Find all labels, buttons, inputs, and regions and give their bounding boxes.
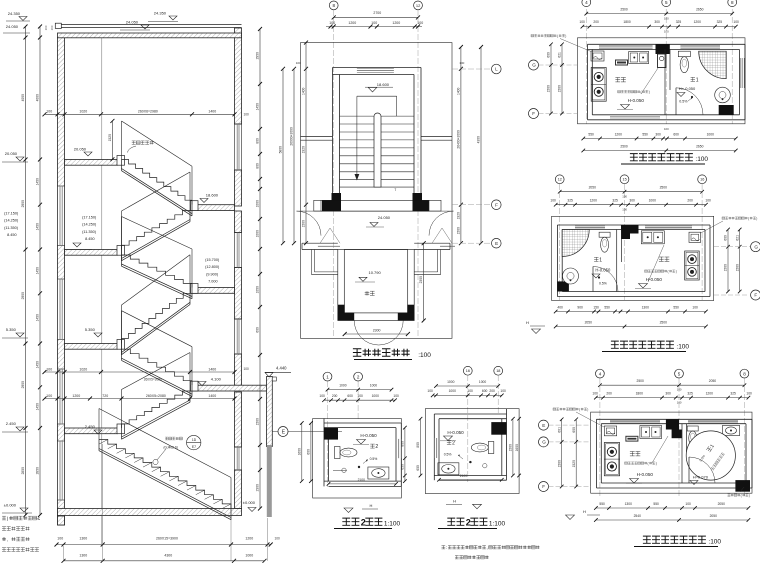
svg-text:H=0.070: H=0.070: [693, 475, 709, 480]
svg-text:2650: 2650: [696, 8, 704, 12]
stair treads: [340, 115, 415, 117]
svg-text:100: 100: [664, 17, 669, 21]
svg-text:H-0.050: H-0.050: [360, 433, 377, 438]
svg-text:600: 600: [482, 389, 488, 393]
svg-text:1200: 1200: [590, 198, 598, 202]
svg-text:100: 100: [275, 537, 281, 541]
svg-text:1300: 1300: [625, 502, 633, 506]
balcony doors: [297, 211, 322, 236]
svg-text:): ): [656, 462, 657, 466]
E axis circle: [278, 427, 288, 437]
svg-text:1000: 1000: [479, 380, 487, 384]
svg-text:4300: 4300: [164, 554, 172, 558]
svg-text:1000: 1000: [707, 132, 715, 136]
svg-text:900: 900: [577, 305, 583, 309]
svg-text:1500: 1500: [302, 220, 306, 228]
svg-text:800: 800: [401, 441, 405, 447]
svg-text:2900: 2900: [21, 381, 25, 389]
svg-text:1500: 1500: [735, 264, 739, 272]
svg-text:100: 100: [371, 21, 377, 25]
section right wall: [235, 28, 242, 124]
svg-text:): ): [756, 217, 757, 221]
svg-text:2100: 2100: [460, 474, 468, 478]
svg-text:2500: 2500: [660, 320, 668, 324]
svg-text:8: 8: [731, 0, 734, 5]
svg-text:2050: 2050: [589, 186, 597, 190]
svg-text:0.5%: 0.5%: [679, 100, 688, 104]
svg-text::100: :100: [418, 352, 431, 359]
svg-text:400: 400: [557, 305, 563, 309]
svg-text:550: 550: [599, 502, 605, 506]
interior extension line: [101, 38, 103, 544]
svg-text:1450: 1450: [36, 403, 40, 411]
svg-text:2: 2: [357, 374, 360, 379]
svg-text:8.450: 8.450: [7, 233, 17, 237]
svg-text:550: 550: [604, 305, 610, 309]
svg-text:600: 600: [547, 52, 551, 58]
svg-text:100: 100: [393, 394, 399, 398]
svg-text:1200: 1200: [348, 21, 356, 25]
svg-text:600: 600: [347, 394, 353, 398]
svg-text:1:100: 1:100: [489, 521, 506, 528]
right landing slabs: [191, 205, 235, 211]
svg-text:200: 200: [687, 198, 693, 202]
svg-text:2850: 2850: [21, 467, 25, 475]
svg-text:20.050: 20.050: [74, 147, 87, 152]
svg-text:H-0.050: H-0.050: [447, 430, 464, 435]
svg-text:4000: 4000: [36, 94, 40, 102]
svg-text:16: 16: [700, 178, 704, 182]
svg-text:300: 300: [665, 391, 671, 395]
svg-text:100: 100: [677, 388, 682, 392]
svg-text:2300: 2300: [373, 329, 381, 333]
svg-text:H-0.050: H-0.050: [628, 98, 645, 103]
svg-text:1500: 1500: [558, 85, 562, 93]
svg-text:F: F: [532, 111, 535, 116]
svg-text:100: 100: [550, 198, 556, 202]
svg-text:1450: 1450: [256, 103, 260, 111]
stair flights: [122, 160, 193, 205]
svg-text:F: F: [495, 202, 498, 207]
svg-text:2050: 2050: [709, 379, 717, 383]
svg-text::: :: [446, 545, 447, 550]
svg-text:G: G: [532, 63, 536, 68]
svg-text:(14.250): (14.250): [82, 223, 97, 227]
svg-text:H=-0.050: H=-0.050: [679, 86, 696, 91]
svg-text:±0.000: ±0.000: [243, 500, 256, 505]
svg-text:100: 100: [592, 391, 598, 395]
svg-text:24.050: 24.050: [378, 215, 391, 220]
svg-text:G: G: [542, 440, 546, 445]
svg-text:325: 325: [676, 20, 682, 24]
svg-text:4.440: 4.440: [276, 366, 287, 371]
svg-text:200: 200: [593, 20, 599, 24]
svg-text:1000: 1000: [372, 394, 380, 398]
svg-text:1000: 1000: [339, 383, 347, 387]
svg-text:(14.250): (14.250): [4, 219, 19, 223]
detail ref circle: [187, 435, 201, 449]
svg-text:601: 601: [557, 427, 561, 433]
svg-text:621: 621: [558, 52, 562, 58]
svg-text:2950: 2950: [256, 52, 260, 60]
svg-text:1000: 1000: [256, 230, 260, 238]
svg-text:12: 12: [558, 178, 562, 182]
svg-text:2100: 2100: [358, 478, 366, 482]
svg-text:,: ,: [487, 545, 488, 550]
svg-text:100: 100: [579, 20, 585, 24]
svg-text:100: 100: [664, 127, 669, 131]
svg-text:26000+3000: 26000+3000: [290, 127, 294, 146]
svg-text:4000: 4000: [21, 94, 25, 102]
svg-text:1300: 1300: [642, 305, 650, 309]
svg-text:24.350: 24.350: [154, 11, 167, 16]
svg-text:H: H: [453, 499, 456, 504]
svg-text:4300: 4300: [477, 136, 481, 144]
svg-text:24.350: 24.350: [8, 11, 21, 16]
svg-text:2050: 2050: [585, 320, 593, 324]
svg-text:720: 720: [102, 394, 108, 398]
svg-text:2650: 2650: [696, 144, 704, 148]
svg-text:2540: 2540: [634, 514, 642, 518]
svg-text:100: 100: [622, 195, 627, 199]
svg-text:1500: 1500: [724, 264, 728, 272]
svg-text:1020: 1020: [79, 110, 87, 114]
svg-text:1020: 1020: [79, 367, 87, 371]
svg-text:18.600: 18.600: [377, 82, 390, 87]
svg-text:150: 150: [593, 305, 599, 309]
svg-text:24.050: 24.050: [6, 24, 19, 29]
svg-text:1200: 1200: [72, 394, 80, 398]
svg-text:2700: 2700: [373, 11, 381, 15]
ground slab: [58, 509, 242, 516]
svg-text:100: 100: [622, 208, 627, 212]
svg-text:4: 4: [599, 371, 602, 376]
svg-text:1300: 1300: [79, 554, 87, 558]
svg-text:325: 325: [687, 391, 693, 395]
svg-text:(17.150): (17.150): [4, 212, 19, 216]
svg-text:550: 550: [642, 132, 648, 136]
svg-text:24.050: 24.050: [126, 20, 139, 25]
svg-text:1600: 1600: [298, 448, 302, 456]
svg-text::100: :100: [676, 344, 689, 351]
svg-text:100: 100: [329, 21, 335, 25]
svg-text:18: 18: [496, 369, 500, 373]
svg-text:800: 800: [416, 442, 420, 448]
svg-text:1000: 1000: [649, 198, 657, 202]
svg-text:650: 650: [416, 465, 420, 471]
svg-text:600: 600: [572, 427, 576, 433]
svg-text:H: H: [370, 503, 373, 508]
right dim column: [259, 29, 261, 509]
svg-text:1520: 1520: [108, 134, 112, 142]
svg-text:1400: 1400: [456, 87, 460, 95]
svg-text:20.050: 20.050: [5, 151, 18, 156]
svg-text:2500: 2500: [637, 379, 645, 383]
svg-text:1520: 1520: [572, 460, 576, 468]
svg-text:2300: 2300: [256, 484, 260, 492]
svg-text:550: 550: [588, 132, 594, 136]
svg-text:2500: 2500: [620, 8, 628, 12]
svg-text:±0.000: ±0.000: [4, 503, 17, 508]
svg-text:(9.900): (9.900): [206, 272, 219, 276]
svg-text:325: 325: [567, 198, 573, 202]
svg-text:0.5%: 0.5%: [599, 282, 607, 286]
svg-text:1800: 1800: [636, 391, 644, 395]
svg-text:2.450: 2.450: [85, 424, 96, 429]
svg-text:1D: 1D: [192, 438, 197, 442]
svg-text:100: 100: [46, 367, 52, 371]
svg-text:(11.350): (11.350): [82, 230, 97, 234]
svg-text:200: 200: [606, 391, 612, 395]
svg-text:1500: 1500: [256, 418, 260, 426]
svg-text:1000: 1000: [449, 389, 457, 393]
svg-text:2: 2: [466, 518, 471, 528]
svg-text:800: 800: [256, 163, 260, 169]
svg-text:100: 100: [296, 61, 301, 65]
svg-text:10.790: 10.790: [369, 270, 382, 275]
svg-text:1450: 1450: [36, 314, 40, 322]
svg-text:E: E: [542, 423, 545, 428]
svg-text:260X15=3900: 260X15=3900: [156, 537, 178, 541]
svg-text:1400: 1400: [208, 394, 216, 398]
svg-text:2: 2: [375, 444, 378, 450]
detail M1 bath2: [298, 372, 407, 528]
detail R1 kitchen/bath: [529, 0, 746, 164]
svg-text:100: 100: [685, 502, 691, 506]
svg-text:2: 2: [452, 441, 455, 447]
svg-text:G: G: [754, 244, 758, 249]
svg-text:1400: 1400: [208, 367, 216, 371]
svg-text::100: :100: [708, 539, 721, 546]
svg-text:300: 300: [654, 20, 660, 24]
svg-text:4.100: 4.100: [211, 376, 222, 381]
svg-text:1000: 1000: [370, 383, 378, 387]
svg-text:300: 300: [629, 198, 635, 202]
svg-text:621: 621: [735, 235, 739, 241]
svg-text:2900: 2900: [21, 200, 25, 208]
svg-text:1200: 1200: [706, 391, 714, 395]
svg-text:1200: 1200: [392, 21, 400, 25]
svg-text:100: 100: [357, 394, 363, 398]
svg-text:1920: 1920: [456, 212, 460, 220]
svg-text:650: 650: [401, 464, 405, 470]
svg-text:16: 16: [466, 369, 470, 373]
stair core: [333, 67, 422, 69]
bottom-left note: [2, 516, 6, 520]
svg-text:550: 550: [673, 305, 679, 309]
dim rows mid: [45, 371, 235, 373]
svg-text:5.350: 5.350: [6, 327, 17, 332]
roof plan title: [353, 349, 361, 357]
svg-text:1800: 1800: [623, 20, 631, 24]
svg-text:1500: 1500: [557, 460, 561, 468]
svg-text:100: 100: [57, 537, 63, 541]
svg-text:600: 600: [256, 327, 260, 333]
svg-text:1500: 1500: [456, 227, 460, 235]
svg-text:2050: 2050: [710, 514, 718, 518]
svg-text:600: 600: [673, 132, 679, 136]
svg-text:200: 200: [332, 394, 338, 398]
svg-text:H-0.050: H-0.050: [637, 472, 654, 477]
svg-text:15: 15: [623, 178, 627, 182]
svg-text:H: H: [526, 320, 529, 325]
svg-text:1450: 1450: [36, 267, 40, 275]
svg-text:): ): [565, 34, 566, 38]
svg-text:1000: 1000: [256, 200, 260, 208]
svg-text:): ): [676, 270, 677, 274]
left dim columns: [25, 27, 27, 516]
svg-text:1050: 1050: [256, 286, 260, 294]
svg-text:2500: 2500: [660, 186, 668, 190]
svg-text:F: F: [542, 484, 545, 489]
svg-text:5800: 5800: [279, 146, 283, 154]
svg-text:(15.700): (15.700): [205, 258, 220, 262]
svg-text:100: 100: [459, 61, 464, 65]
svg-text:800: 800: [256, 138, 260, 144]
svg-text:5: 5: [678, 371, 681, 376]
detail R3 kitchen/bath: [539, 369, 753, 546]
svg-text:325: 325: [612, 198, 618, 202]
svg-text:2300: 2300: [419, 276, 423, 284]
svg-text:100: 100: [319, 394, 325, 398]
svg-text:F: F: [754, 293, 757, 298]
section left wall: [58, 38, 65, 526]
svg-text:260X5=2080: 260X5=2080: [144, 378, 162, 382]
svg-text:26400+3000: 26400+3000: [456, 130, 460, 149]
svg-text:12: 12: [416, 3, 421, 8]
svg-text:1: 1: [326, 374, 329, 379]
svg-text:1300: 1300: [79, 537, 87, 541]
svg-text:1: 1: [696, 78, 699, 84]
svg-text:(17.150): (17.150): [82, 216, 97, 220]
roof slab: [56, 24, 242, 26]
svg-text:1600: 1600: [515, 444, 519, 452]
svg-text:100: 100: [677, 401, 682, 405]
svg-text:): ): [649, 90, 650, 94]
svg-text:100: 100: [427, 389, 433, 393]
svg-text:600: 600: [307, 449, 311, 455]
svg-text:H: H: [583, 509, 586, 514]
svg-text:1200: 1200: [615, 132, 623, 136]
svg-text:2900: 2900: [21, 292, 25, 300]
svg-text:600: 600: [724, 235, 728, 241]
svg-text:300: 300: [655, 132, 661, 136]
svg-text:E7: E7: [192, 445, 196, 449]
svg-text:100: 100: [46, 394, 52, 398]
svg-text:2050: 2050: [718, 502, 726, 506]
svg-text:18.600: 18.600: [206, 193, 219, 198]
roof plan: [279, 1, 502, 360]
svg-text:1450: 1450: [36, 361, 40, 369]
svg-text:7.000: 7.000: [208, 280, 218, 284]
svg-text:100: 100: [705, 198, 711, 202]
svg-text:100: 100: [467, 389, 473, 393]
svg-text:1450: 1450: [36, 178, 40, 186]
svg-text:,: ,: [7, 537, 8, 542]
svg-text:100: 100: [46, 110, 52, 114]
svg-text:1920: 1920: [302, 146, 306, 154]
svg-text:100: 100: [733, 20, 739, 24]
svg-text::100: :100: [695, 156, 708, 163]
svg-text:1400: 1400: [302, 87, 306, 95]
svg-text:1200: 1200: [694, 20, 702, 24]
svg-text:1:100: 1:100: [384, 521, 401, 528]
svg-text:2500: 2500: [620, 144, 628, 148]
svg-text:2850: 2850: [36, 467, 40, 475]
svg-text:200: 200: [489, 389, 495, 393]
left landing slabs: [65, 160, 118, 166]
svg-text:(GJ402-6): (GJ402-6): [164, 446, 178, 450]
E axis walls: [302, 242, 338, 244]
detail M2 bath2: [416, 366, 539, 559]
roof plan axis circles: [492, 64, 502, 74]
stepped parapet: [311, 250, 313, 275]
svg-text:2: 2: [361, 518, 366, 528]
roof outer boundary: [301, 43, 453, 339]
svg-text:1500: 1500: [547, 85, 551, 93]
svg-text:8: 8: [743, 371, 746, 376]
machine room doors: [354, 321, 379, 346]
dim row upper: [45, 113, 235, 115]
svg-text:1200: 1200: [245, 537, 253, 541]
bottom dims: [57, 544, 271, 546]
svg-text:4: 4: [585, 0, 588, 5]
svg-text:200: 200: [50, 25, 54, 30]
svg-text:L: L: [495, 67, 498, 72]
svg-text:325: 325: [717, 20, 723, 24]
svg-text:8: 8: [333, 3, 336, 8]
svg-text:(12.800): (12.800): [205, 265, 220, 269]
svg-text:260X5=2080: 260X5=2080: [146, 394, 166, 398]
svg-text:7: 7: [394, 188, 396, 192]
svg-text:): ): [749, 494, 750, 498]
exterior wall 4.440: [267, 377, 273, 447]
svg-text:1450: 1450: [36, 223, 40, 231]
svg-text:100: 100: [692, 305, 698, 309]
detail R2 kitchen/bath: [526, 175, 760, 352]
svg-text:1400: 1400: [208, 110, 216, 114]
svg-text:1000: 1000: [447, 380, 455, 384]
svg-text:100: 100: [417, 21, 423, 25]
machine room: [338, 250, 414, 321]
svg-text:1000: 1000: [245, 554, 253, 558]
svg-text:): ): [587, 408, 588, 412]
svg-text:1: 1: [599, 258, 602, 264]
svg-text:550: 550: [653, 502, 659, 506]
svg-text:100: 100: [664, 30, 669, 34]
svg-text:(11.350): (11.350): [4, 226, 19, 230]
band wall with columns: [314, 199, 441, 201]
svg-text:100: 100: [746, 391, 752, 395]
svg-text:100: 100: [244, 113, 250, 117]
svg-text:1500: 1500: [509, 444, 513, 452]
svg-text:325: 325: [730, 391, 736, 395]
svg-text:0.5%: 0.5%: [444, 453, 452, 457]
svg-text:100: 100: [500, 389, 506, 393]
svg-text:100: 100: [244, 367, 250, 371]
svg-text:5.350: 5.350: [85, 327, 96, 332]
svg-text:5: 5: [665, 0, 668, 5]
svg-text:2.450: 2.450: [6, 421, 17, 426]
svg-text:300: 300: [44, 25, 48, 30]
svg-text:8.450: 8.450: [85, 237, 95, 241]
svg-text:0.5%: 0.5%: [370, 457, 378, 461]
svg-text:E: E: [495, 241, 498, 246]
svg-text:260X6=2980: 260X6=2980: [138, 110, 158, 114]
